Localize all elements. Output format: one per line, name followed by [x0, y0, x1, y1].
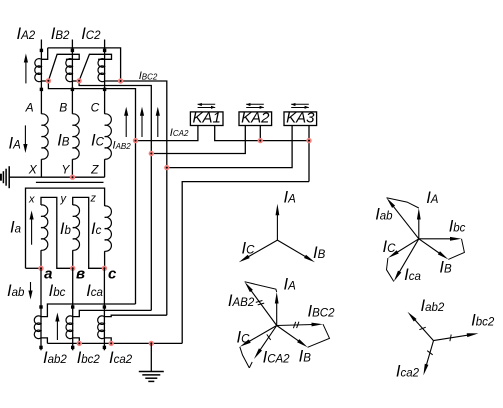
wire TA2 secondary top: [48, 54, 79, 81]
vector diagram3 construction Ibc-IB: [448, 239, 464, 260]
label IC: [91, 132, 105, 150]
label terminal c: [108, 266, 117, 283]
vector diagram3 Ica: [394, 239, 419, 282]
current arrow IA2 direction: [24, 54, 28, 84]
CT TA2 secondary coil: [66, 59, 73, 82]
junction square TA5 top: [71, 305, 74, 308]
node dot KA1-v1: [133, 138, 138, 143]
svg-text:KA3: KA3: [286, 110, 315, 127]
label x: [28, 194, 35, 206]
transformer core separator: [36, 181, 104, 183]
label IB2: [51, 25, 70, 43]
label Ib: [60, 220, 72, 238]
label IB: [57, 132, 70, 150]
label Iab: [7, 282, 25, 300]
node dot CT delta 1: [46, 78, 51, 83]
wire TA5 secondary bottom: [73, 338, 80, 344]
wire box bottom-left to terminal a: [26, 267, 42, 269]
vector diagram2 label IBC2: [308, 303, 336, 321]
wire winding C to star point: [104, 159, 106, 177]
wire TA3 secondary bottom stub: [105, 80, 121, 82]
svg-text:Z: Z: [90, 163, 99, 177]
relay KA2: [239, 103, 272, 127]
junction square TA6 top: [103, 305, 106, 308]
label phase C: [91, 101, 100, 115]
wire relay return to v4: [182, 182, 309, 344]
vector diagram4 label Iab2: [421, 297, 445, 315]
label Iab2: [43, 349, 67, 367]
winding primary C: [105, 114, 112, 159]
svg-text:C: C: [91, 101, 100, 115]
vector diagram3 label IA: [426, 189, 439, 207]
wire TA5 secondary top: [73, 310, 152, 316]
node dot KA2-v2: [149, 151, 154, 156]
node dot common ground tap: [149, 341, 154, 346]
vector diagram4 Iab2: [408, 312, 434, 341]
vector diagram2 IB: [277, 326, 308, 348]
ground neutral (left): [1, 166, 9, 188]
junction square TA5 bottom: [71, 346, 74, 349]
junction square TA2 bottom: [71, 88, 74, 91]
wire TA1 secondary bottom stub: [41, 80, 48, 82]
vector diagram3 label Iab: [375, 206, 393, 224]
wire KA1 right to KA3 right common: [215, 126, 309, 141]
wire delta output 2 (IBC2): [79, 81, 151, 311]
label Y: [61, 163, 70, 177]
svg-text:IBC2: IBC2: [139, 70, 158, 82]
delta box outline left+top: [26, 188, 105, 268]
CT TA6 secondary coil: [98, 316, 105, 339]
vector diagram1 IB: [277, 240, 315, 262]
vector diagram1 IA: [276, 204, 280, 240]
svg-text:ICA2: ICA2: [170, 127, 189, 139]
label Ibc: [49, 282, 66, 300]
label y: [60, 193, 68, 205]
wire feeder a: [40, 268, 42, 350]
svg-text:X: X: [28, 163, 38, 177]
vector diagram1 IC: [239, 240, 278, 262]
label X: [28, 163, 38, 177]
svg-text:IAB2: IAB2: [113, 140, 132, 152]
label terminal v: [76, 266, 85, 283]
node dot KA3-v3: [164, 165, 169, 170]
wire TA2 secondary bottom stub: [72, 80, 79, 82]
current arrow IA: [23, 125, 27, 153]
vector diagram1 label IB: [313, 244, 326, 262]
CT TA1 secondary coil: [35, 59, 42, 82]
wire KA2 left terminal: [151, 126, 245, 154]
label Ibc2: [77, 349, 101, 367]
CT TA4 secondary coil: [34, 316, 41, 339]
wire KA3 right terminal down: [308, 126, 310, 182]
vector diagram2 ICA2: [249, 326, 276, 368]
vector diagram2 IA: [275, 292, 279, 326]
label Ia: [10, 219, 21, 237]
vector diagram2 label IC: [237, 329, 251, 347]
wire CT loop top horizontal: [48, 48, 121, 81]
vector diagram3 label IB: [439, 259, 452, 277]
relay KA1: [190, 103, 223, 127]
wire TA6 secondary top: [104, 315, 166, 316]
vector diagram2 construction IBC2-IB: [308, 324, 330, 347]
svg-text:z: z: [90, 193, 97, 205]
node dot common TA6: [109, 341, 114, 346]
vector diagram2 IBC2: [277, 322, 323, 329]
vector diagram3 Ibc: [419, 237, 462, 241]
vector diagram3 Iab: [387, 198, 419, 239]
wire delta output 1 (IAB2): [48, 81, 135, 304]
label z: [90, 193, 97, 205]
svg-text:x: x: [28, 194, 35, 206]
current arrow secondary 2: [140, 107, 144, 137]
junction square TA4 top: [39, 305, 42, 308]
label Ica: [86, 282, 103, 300]
node dot CT delta 2: [76, 78, 81, 83]
label IA2: [17, 25, 36, 43]
svg-text:A: A: [25, 101, 34, 115]
wire KA2 right terminal: [259, 126, 261, 141]
node dot terminal a: [38, 266, 43, 271]
wire TA4 secondary bottom: [41, 338, 47, 344]
vector diagram2 label IB: [299, 348, 312, 366]
node dot terminal b: [70, 266, 75, 271]
current arrow Ia: [30, 211, 34, 245]
current arrow secondary 3: [156, 107, 160, 137]
node dot CT delta 3: [118, 78, 123, 83]
junction square TA6 bottom: [103, 346, 106, 349]
current arrow Iab: [28, 282, 32, 300]
current arrow secondary 1: [124, 107, 128, 137]
junction square TA3 top: [103, 49, 106, 52]
vector diagram3 label Ibc: [449, 218, 466, 236]
label phase B: [59, 101, 67, 115]
label Z: [90, 163, 99, 177]
junction square TA4 bottom: [39, 346, 42, 349]
ground (bottom): [139, 343, 164, 381]
wire TA1 secondary top riser: [41, 48, 47, 59]
wire TA3 secondary top: [79, 54, 111, 81]
current arrow TA4 secondary: [55, 313, 59, 341]
vector diagram2 construction IAB2-IA: [245, 282, 277, 292]
node dot star Y: [70, 175, 75, 180]
wire secondary common return: [47, 342, 182, 344]
label Ica2: [109, 349, 133, 367]
winding secondary a unit: [41, 197, 73, 268]
vector diagram3 construction Iab-IA: [387, 198, 419, 208]
wire star common: [9, 176, 104, 178]
svg-text:B: B: [59, 101, 67, 115]
vector diagram2 construction IC-ICA2: [240, 347, 250, 368]
svg-text:c: c: [108, 266, 117, 283]
node dot KA2 right: [258, 138, 263, 143]
vector diagram2 IC: [240, 326, 277, 347]
vector diagram3 IB: [419, 239, 449, 260]
vector diagram2 label ICA2: [263, 349, 291, 367]
vector diagram2 label IAB2: [228, 292, 255, 310]
junction square TA1 top: [40, 49, 43, 52]
wire TA6 secondary bottom: [104, 338, 111, 344]
svg-text:в: в: [76, 266, 85, 283]
node dot common TA5: [77, 341, 82, 346]
wire TA4 secondary top: [41, 304, 136, 317]
svg-text:a: a: [44, 266, 52, 283]
wire primary phase B through CT TA2: [71, 40, 73, 114]
wire delta output 3 (ICA2): [121, 81, 167, 315]
vector diagram3 label Ica: [404, 266, 421, 284]
vector diagram2 IAB2: [245, 282, 277, 326]
svg-text:Y: Y: [61, 163, 70, 177]
wire right edge to terminal c: [104, 251, 106, 268]
winding primary A: [41, 114, 48, 159]
label IBC2: [139, 70, 158, 82]
vector diagram1 label IC: [242, 239, 256, 257]
vector diagram3 IA: [417, 208, 421, 239]
svg-text:KA1: KA1: [193, 110, 221, 127]
winding primary B: [72, 114, 79, 159]
label Ic: [91, 220, 102, 238]
vector diagram1 label IA: [284, 189, 297, 207]
CT TA3 secondary coil: [98, 59, 105, 82]
svg-text:KA2: KA2: [241, 110, 270, 127]
relay KA3: [284, 103, 317, 127]
vector diagram3 IC: [388, 239, 419, 258]
label IC2: [81, 25, 101, 43]
wire winding B to star point: [71, 159, 73, 177]
junction square TA3 bottom: [103, 88, 106, 91]
node dot terminal c: [102, 266, 107, 271]
label IAB2: [113, 140, 132, 152]
vector diagram4 label Ibc2: [471, 312, 495, 330]
junction square TA2 top: [71, 49, 74, 52]
wire KA3 left terminal: [167, 126, 292, 168]
vector diagram3 construction IC-Ica: [387, 258, 394, 282]
vector diagram2 label IA: [284, 276, 297, 294]
wire feeder c: [103, 268, 105, 350]
vector diagram3 label IC: [383, 238, 397, 256]
vector diagram4 label Ica2: [396, 363, 420, 381]
label phase A: [25, 101, 34, 115]
wire primary phase C through CT TA3: [104, 40, 106, 114]
vector diagram4 Ica2: [423, 341, 433, 376]
winding secondary c (on right edge): [105, 206, 112, 251]
label ICA2: [170, 127, 189, 139]
winding secondary b unit: [73, 197, 105, 268]
label terminal a: [44, 266, 52, 283]
wire primary phase A through CT TA1: [40, 40, 42, 114]
node dot KA3 right: [306, 138, 311, 143]
wire feeder b: [72, 268, 74, 350]
wire winding A to star point: [40, 159, 42, 177]
CT TA5 secondary coil: [66, 316, 73, 339]
wire KA1 left terminal: [136, 126, 198, 141]
label IA: [9, 135, 22, 153]
vector diagram4 Ibc2: [434, 333, 479, 341]
junction square TA1 bottom: [40, 88, 43, 91]
